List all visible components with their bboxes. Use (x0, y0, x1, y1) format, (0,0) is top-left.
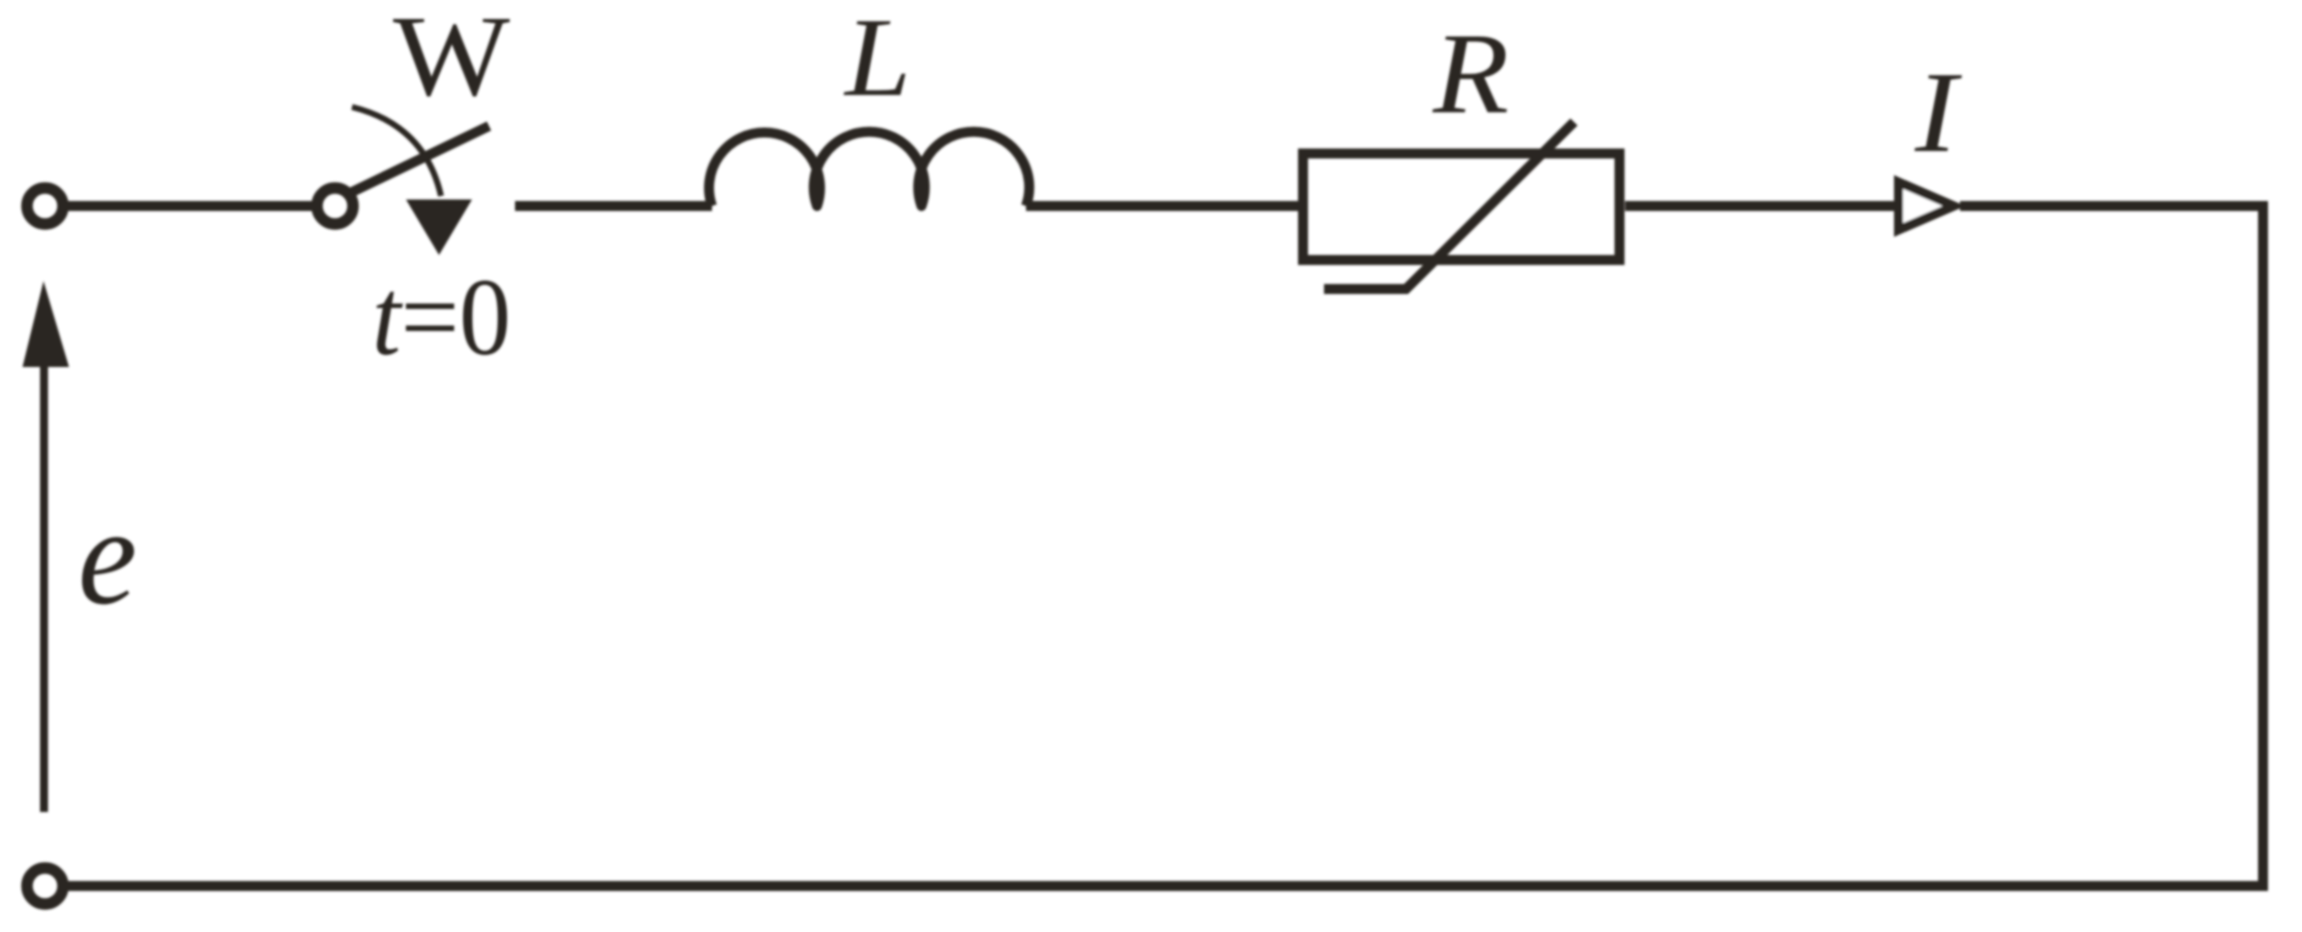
switch arrowhead (406, 200, 472, 256)
switch closing arc arrow (352, 107, 441, 196)
wire switch to inductor (515, 201, 712, 211)
wire top-left to switch (68, 201, 313, 211)
resistor R body (1303, 154, 1620, 261)
svg-text:R: R (1432, 10, 1509, 137)
svg-text:W: W (393, 0, 511, 121)
svg-text:I: I (1914, 49, 1963, 177)
svg-text:e: e (78, 479, 137, 634)
switch W pivot (317, 188, 353, 224)
terminal top-left (27, 188, 63, 224)
svg-text:L: L (843, 0, 911, 120)
wire resistor to current arrow (1625, 201, 1898, 211)
switch W blade (352, 126, 489, 192)
resistor R diagonal (thermistor stroke) (1324, 122, 1574, 289)
EMF arrow shaft (40, 360, 48, 812)
current arrow I (1899, 182, 1955, 230)
EMF arrowhead (23, 281, 70, 367)
wire inductor to resistor (1026, 201, 1298, 211)
inductor L coil (709, 132, 1029, 206)
svg-text:t=0: t=0 (372, 256, 511, 378)
wire top-right, right side, bottom (68, 206, 2263, 886)
terminal bottom-left (27, 868, 63, 904)
